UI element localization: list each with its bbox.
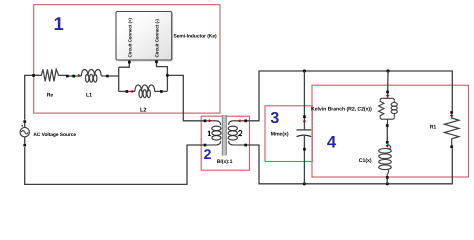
port square Re right	[66, 75, 69, 78]
port square L2 right	[160, 90, 163, 93]
port square C1 bottom	[386, 176, 389, 179]
port square R1 top	[450, 111, 453, 114]
port square Re left	[32, 74, 35, 77]
port square Kelvin mid upper	[386, 124, 389, 127]
pin number 1	[208, 131, 211, 136]
port square L1 right	[106, 75, 109, 78]
red arrow C1	[386, 145, 389, 148]
junction node Kelvin bottom	[386, 182, 389, 185]
svg-text:Circuit Connect (+): Circuit Connect (+)	[127, 18, 132, 58]
port square Kelvin top	[386, 91, 389, 94]
svg-text:C1(x): C1(x)	[359, 158, 372, 164]
inductor C1(x) spring	[379, 144, 392, 177]
wire Mme branch top	[303, 71, 305, 129]
red arrow Kelvin top	[386, 95, 389, 98]
junction node Kelvin top	[386, 69, 389, 72]
red arrow R1	[450, 115, 453, 118]
svg-text:Mme(x): Mme(x)	[271, 131, 289, 137]
svg-text:AC Voltage Source: AC Voltage Source	[33, 132, 76, 138]
capacitor Mme(x)	[297, 130, 312, 137]
red arrow T1 primary	[209, 119, 212, 122]
svg-text:R1: R1	[430, 125, 437, 131]
AC voltage source V1	[20, 120, 29, 146]
port square block right	[155, 60, 158, 63]
port square T1 bottom-right	[244, 144, 247, 147]
wire Kelvin bottom	[386, 179, 388, 184]
port square T1 bottom-left	[204, 144, 207, 147]
port square Mme top	[303, 115, 306, 118]
inductor L1	[75, 69, 106, 82]
svg-text:Circuit Connect (-): Circuit Connect (-)	[155, 19, 160, 58]
port square block left	[128, 61, 131, 64]
svg-text:2: 2	[204, 146, 212, 162]
wire junction to transformer	[167, 75, 203, 120]
svg-text:Re: Re	[47, 92, 54, 98]
core	[222, 115, 226, 156]
svg-text:Kelvin Branch (R2, C2(x)): Kelvin Branch (R2, C2(x))	[311, 107, 372, 113]
svg-text:3: 3	[270, 110, 279, 127]
wire L1 to junction	[109, 67, 119, 91]
junction node right of L1 net	[166, 74, 169, 77]
wire Kelvin branch top	[387, 71, 389, 98]
svg-text:Semi-Inductor (Ke): Semi-Inductor (Ke)	[174, 34, 218, 40]
junction node Mme top	[303, 69, 306, 72]
wire Kelvin mid	[386, 127, 388, 142]
svg-text:L1: L1	[86, 92, 92, 98]
annotation box 1	[34, 5, 220, 113]
wire T1 right ports to right loop	[247, 71, 452, 121]
resistor R1	[444, 114, 459, 146]
port square L2 left	[126, 90, 129, 93]
pin number 2	[239, 131, 242, 136]
secondary winding	[228, 121, 244, 145]
port square C1 top	[386, 141, 389, 144]
resistor R2	[379, 100, 384, 117]
semi-inductor block U1	[116, 12, 173, 62]
wire block left port elbow	[119, 60, 130, 67]
junction node Mme bottom	[303, 182, 306, 185]
svg-text:L2: L2	[140, 108, 147, 114]
port square L1 left	[72, 75, 75, 78]
red arrow before L2	[132, 90, 135, 93]
transformer T1	[204, 115, 247, 156]
wire: main loop left vertical and top	[25, 75, 204, 184]
wire Mme branch bottom	[303, 136, 305, 184]
annotation box 4	[312, 85, 469, 177]
capacitor C2(x) coil icon	[391, 100, 397, 117]
primary winding	[206, 121, 221, 145]
svg-text:Bl(x):1: Bl(x):1	[217, 159, 233, 165]
red arrow before L1	[78, 74, 81, 77]
wire block right port elbow	[157, 60, 168, 91]
port square Mme bottom	[303, 148, 306, 151]
wire L2 branch left	[119, 90, 127, 92]
svg-text:4: 4	[327, 133, 337, 152]
annotation box 3	[265, 106, 312, 162]
wire Re to L1	[69, 75, 73, 77]
wire L2 right to junction	[163, 90, 168, 92]
red arrow Mme	[303, 121, 306, 124]
port square T1 top-left	[204, 120, 207, 123]
resistor Re	[35, 69, 66, 81]
svg-text:1: 1	[54, 13, 64, 34]
port square R1 bottom	[450, 145, 453, 148]
resistor R2 and capacitor C2 parallel frame	[380, 98, 394, 125]
red arrow T1 secondary	[238, 119, 241, 122]
annotation box 2	[201, 116, 249, 170]
port square T1 top-right	[244, 120, 247, 123]
inductor L2	[128, 85, 160, 98]
wire T1 bottom-right to bottom rail	[247, 145, 452, 184]
